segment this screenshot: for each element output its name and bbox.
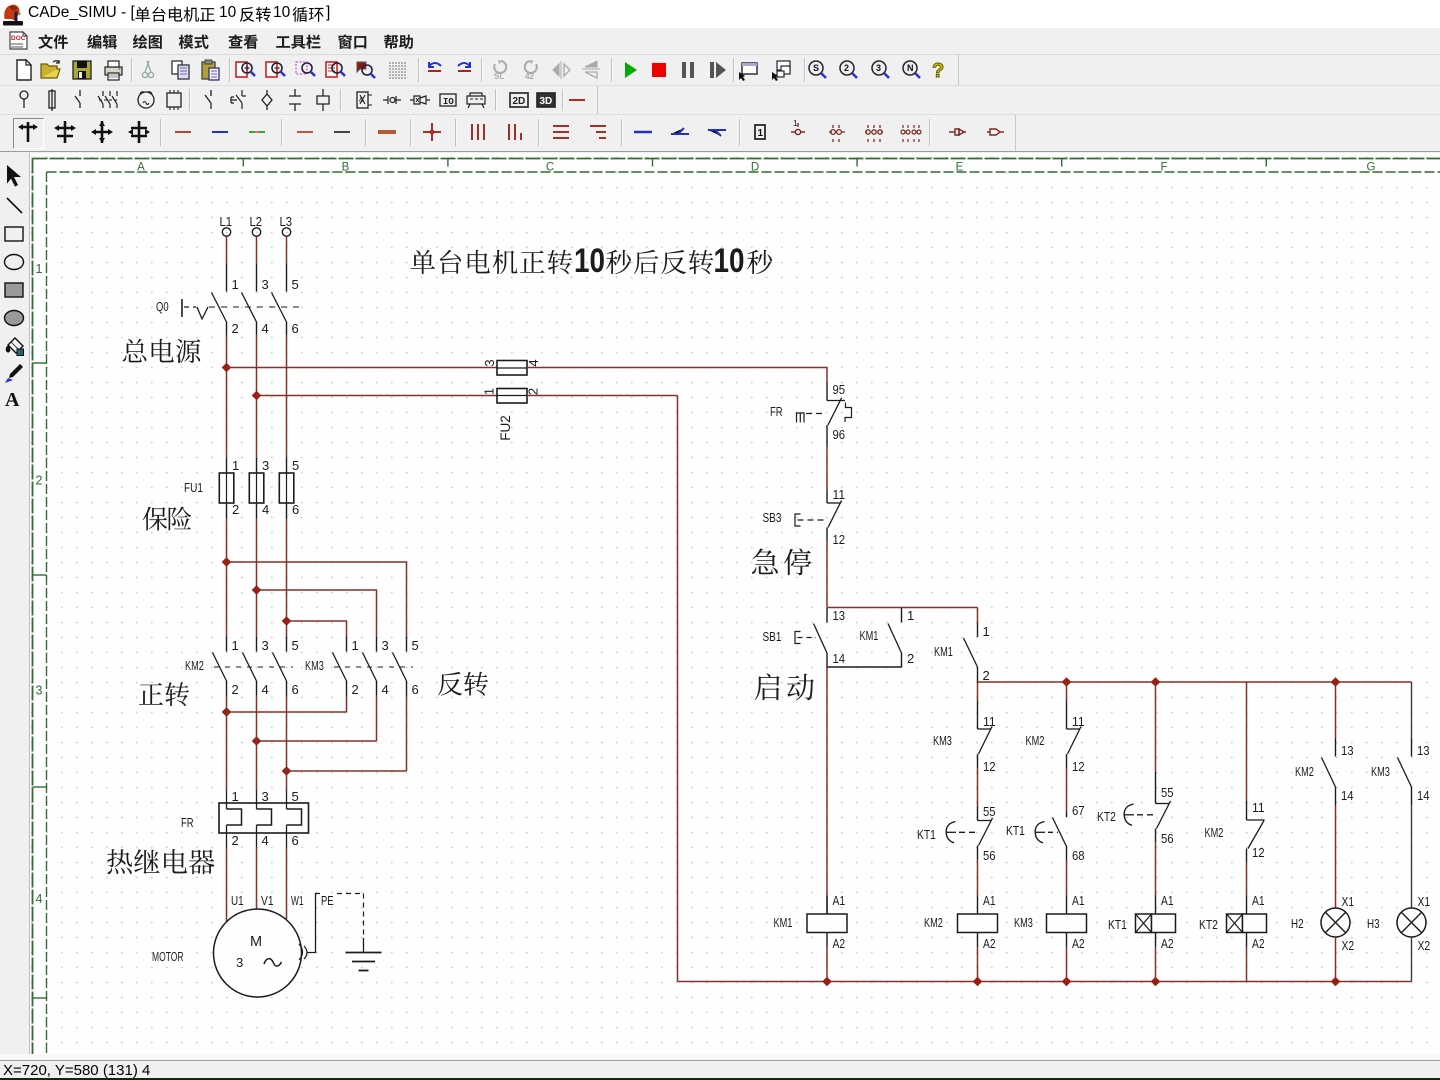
wire L2 to Q0 — [256, 237, 258, 265]
fuse FU2 lower — [497, 389, 527, 404]
svg-text:H3: H3 — [1367, 916, 1380, 931]
svg-text:KM3: KM3 — [305, 658, 324, 673]
wire H3 to rail — [1411, 937, 1413, 982]
svg-text:KT1: KT1 — [1006, 823, 1025, 838]
svg-text:2: 2 — [352, 682, 359, 697]
wire L3 Q0 to FU1 — [286, 335, 288, 458]
breaker Q0 pole 2 — [256, 264, 258, 292]
wire KM2 coil to rail — [977, 947, 979, 982]
fuse FU1 pole 1-2 — [226, 458, 228, 473]
svg-text:A2: A2 — [833, 936, 846, 951]
svg-text:12: 12 — [1252, 845, 1265, 860]
wire L2 Q0 to FU1 — [256, 335, 258, 458]
label ji-ting emergency stop — [752, 548, 812, 575]
svg-text:A2: A2 — [1252, 936, 1265, 951]
coil KT2 timer — [1246, 896, 1248, 915]
wire L1 FU1 to KM2 — [226, 518, 228, 637]
svg-text:FR: FR — [181, 815, 194, 830]
svg-text:14: 14 — [833, 651, 846, 666]
svg-text:3: 3 — [262, 638, 269, 653]
svg-text:X2: X2 — [1342, 938, 1355, 953]
svg-text:2: 2 — [983, 668, 990, 683]
wire L2 tap to FU2 — [257, 395, 498, 397]
wire L1 Q0 to FU1 — [226, 335, 228, 458]
wire PE — [307, 894, 321, 953]
node bus b3 — [1062, 677, 1072, 687]
svg-text:13: 13 — [1417, 743, 1430, 758]
svg-text:X1: X1 — [1418, 894, 1431, 909]
schematic heading text — [410, 250, 572, 274]
breaker Q0 actuator and linkage — [181, 299, 183, 317]
contactor KM2 NO aux contact 11-12 — [1246, 801, 1248, 820]
svg-text:KT2: KT2 — [1199, 917, 1218, 932]
svg-text:4: 4 — [262, 833, 269, 848]
pushbutton SB3 NC contact 11-12 — [826, 490, 828, 504]
svg-text:KM3: KM3 — [1371, 764, 1390, 779]
wire KT1 coil to rail — [1155, 947, 1157, 982]
node junction L2 to KM3 — [252, 585, 262, 595]
wire bus to KT2 contact — [1155, 682, 1157, 772]
label zheng-zhuan forward — [139, 682, 189, 706]
wire KM3i to KT1 — [977, 768, 979, 806]
svg-text:PE: PE — [321, 893, 334, 908]
svg-text:6: 6 — [292, 833, 299, 848]
node rail b4 — [1151, 977, 1161, 987]
fuse FU1 pole 3-4 — [256, 458, 258, 473]
linkage KM3 — [334, 666, 413, 668]
node rail b2 — [973, 977, 983, 987]
motor PE terminal arcs — [299, 944, 303, 960]
svg-text:95: 95 — [833, 382, 846, 397]
svg-text:5: 5 — [292, 789, 299, 804]
wire FR to motor V1 — [256, 847, 258, 909]
svg-text:5: 5 — [292, 638, 299, 653]
svg-text:68: 68 — [1072, 848, 1085, 863]
wire KT1 to KM2 coil — [977, 860, 979, 896]
svg-text:SB1: SB1 — [763, 629, 782, 644]
wire PE dashed — [337, 893, 364, 895]
wire FR to motor U1 — [226, 847, 228, 921]
contactor KM3 main contact pole 1 — [346, 637, 348, 652]
breaker Q0 pole 3 — [286, 264, 288, 292]
contactor KM1 aux NO parallel contact 1-2 — [901, 608, 903, 623]
svg-text:A1: A1 — [983, 893, 996, 908]
wire KM3l to H3 — [1411, 805, 1413, 908]
contactor KM1 aux NO contact 1-2 branch2 — [977, 623, 979, 637]
wire L2 to KM3 pole2 — [257, 590, 377, 637]
coil KT1 timer — [1155, 896, 1157, 915]
timer KT2 delayed NC contact 55-56 — [1155, 772, 1157, 804]
FR release hook — [845, 403, 852, 423]
breaker Q0 pole 1 — [226, 264, 228, 292]
wire KM2a to KT2 coil — [1246, 862, 1248, 896]
svg-text:A1: A1 — [833, 893, 846, 908]
svg-text:6: 6 — [292, 502, 299, 517]
svg-text:1: 1 — [232, 458, 239, 473]
pushbutton SB1 NO contact 13-14 — [826, 608, 828, 623]
svg-text:KM1: KM1 — [860, 628, 879, 643]
wire KM1 coil to rail — [826, 947, 828, 982]
svg-text:X2: X2 — [1418, 938, 1431, 953]
svg-text:KM2: KM2 — [1026, 733, 1045, 748]
svg-text:55: 55 — [983, 804, 996, 819]
contactor KM3 main contact pole 3 — [406, 637, 408, 652]
svg-text:5: 5 — [292, 277, 299, 292]
svg-text:11: 11 — [1072, 714, 1085, 729]
contactor KM3 NO lamp contact 13-14 — [1411, 738, 1413, 757]
wire FU2 lower to left control rail — [527, 395, 678, 397]
svg-text:14: 14 — [1417, 788, 1430, 803]
svg-text:12: 12 — [1072, 759, 1085, 774]
node L2 — [252, 228, 260, 236]
fuse FU2 upper — [497, 361, 527, 376]
node junction L2 tap — [252, 391, 262, 401]
svg-text:A2: A2 — [1072, 936, 1085, 951]
wire FR to motor W1 — [286, 847, 288, 919]
svg-text:FU1: FU1 — [184, 480, 203, 495]
node junction L1 to KM3 — [222, 557, 232, 567]
wire KT2 coil to rail — [1246, 947, 1248, 982]
svg-text:13: 13 — [833, 608, 846, 623]
thermal relay FR NC contact 95-96 — [826, 383, 828, 401]
svg-text:3: 3 — [236, 955, 243, 970]
wire L3 to Q0 — [286, 237, 288, 265]
wire KT1b to KM3 coil — [1066, 860, 1068, 896]
contactor KM2 main contact pole 3 — [286, 637, 288, 652]
label re-ji-dian-qi thermal relay — [107, 849, 214, 874]
svg-text:A1: A1 — [1072, 893, 1085, 908]
svg-text:A1: A1 — [1252, 893, 1265, 908]
coil KM1 — [826, 896, 828, 915]
svg-text:3: 3 — [482, 359, 497, 366]
svg-text:W1: W1 — [291, 893, 304, 908]
wire bus to KM2 NO — [1246, 682, 1248, 801]
svg-text:MOTOR: MOTOR — [152, 949, 184, 964]
wire FU2 upper to FR contact — [527, 368, 827, 383]
svg-text:4: 4 — [262, 502, 269, 517]
svg-text:2: 2 — [232, 502, 239, 517]
svg-text:KM2: KM2 — [1205, 825, 1224, 840]
svg-text:2: 2 — [907, 651, 914, 666]
wire left control rail — [677, 396, 679, 982]
node L3 — [282, 228, 290, 236]
wire KM3 pole2 out — [376, 696, 378, 742]
svg-text:6: 6 — [412, 682, 419, 697]
label fan-zhuan reverse — [438, 672, 488, 696]
svg-text:FR: FR — [770, 404, 783, 419]
svg-text:13: 13 — [1341, 743, 1354, 758]
svg-text:4: 4 — [382, 682, 389, 697]
svg-text:2: 2 — [232, 682, 239, 697]
svg-text:10: 10 — [714, 241, 745, 279]
svg-text:KM2: KM2 — [924, 915, 943, 930]
timer KT1 delayed NC contact 55-56 — [977, 806, 979, 821]
wire H2 to rail — [1335, 937, 1337, 982]
svg-text:2: 2 — [232, 833, 239, 848]
wire L1 tap to FU2 — [227, 367, 498, 369]
svg-text:2: 2 — [232, 321, 239, 336]
wire SB3 to SB1 — [826, 542, 828, 608]
wire SB1 to KM1 coil — [826, 667, 828, 914]
node bus b4 — [1151, 677, 1161, 687]
svg-text:2: 2 — [526, 388, 541, 395]
svg-text:4: 4 — [526, 359, 541, 366]
wire bus to KM2 lamp contact — [1335, 682, 1337, 738]
svg-text:11: 11 — [833, 487, 846, 502]
svg-text:56: 56 — [1161, 831, 1174, 846]
svg-text:12: 12 — [983, 759, 996, 774]
wire KT2a to KT1 coil — [1155, 842, 1157, 896]
label bao-xian fuse — [143, 507, 192, 531]
wire bus corner to KM3 lamp contact — [1411, 682, 1413, 738]
svg-text:1: 1 — [232, 789, 239, 804]
wire bottom rail — [678, 981, 1412, 983]
svg-text:FU2: FU2 — [498, 415, 513, 441]
svg-text:10: 10 — [574, 241, 605, 279]
svg-text:1: 1 — [482, 388, 497, 395]
svg-text:Q0: Q0 — [156, 299, 169, 314]
coil KM2 — [977, 896, 979, 915]
contactor KM3 main contact pole 2 — [376, 637, 378, 652]
svg-text:X1: X1 — [1342, 894, 1355, 909]
svg-text:KM3: KM3 — [933, 733, 952, 748]
contactor KM2 NC interlock contact 11-12 — [1066, 701, 1068, 730]
svg-text:L3: L3 — [280, 214, 293, 229]
wire bus to KM3 NC — [977, 682, 979, 701]
wire V to FR — [256, 696, 258, 791]
wire L3 FU1 to KM2 — [286, 518, 288, 637]
svg-text:V1: V1 — [261, 893, 274, 908]
svg-text:96: 96 — [833, 427, 846, 442]
wire L1 to KM3 pole3 — [227, 562, 407, 637]
wire KM3 coil to rail — [1066, 947, 1068, 982]
svg-text:KM2: KM2 — [185, 658, 204, 673]
SB1 button actuator — [795, 632, 801, 644]
svg-text:5: 5 — [292, 458, 299, 473]
coil KM3 — [1066, 896, 1068, 915]
wire KM2l to H2 — [1335, 805, 1337, 908]
node junction L1 tap — [222, 363, 232, 373]
svg-text:1: 1 — [352, 638, 359, 653]
thermal relay FR heater block — [219, 803, 309, 833]
svg-text:1: 1 — [983, 624, 990, 639]
svg-text:L1: L1 — [220, 214, 233, 229]
svg-text:55: 55 — [1161, 785, 1174, 800]
lamp H2 — [1321, 908, 1350, 937]
contactor KM2 main contact pole 2 — [256, 637, 258, 652]
svg-text:6: 6 — [292, 682, 299, 697]
svg-text:12: 12 — [833, 532, 846, 547]
wire control bus — [978, 681, 1412, 683]
svg-text:6: 6 — [292, 321, 299, 336]
svg-text:KT1: KT1 — [917, 827, 936, 842]
wire KM3 pole3 out — [406, 696, 408, 772]
svg-text:H2: H2 — [1291, 916, 1304, 931]
node L1 — [222, 228, 230, 236]
timer KT1 delayed NO contact 67-68 — [1066, 812, 1068, 817]
label qi-dong start — [755, 673, 814, 700]
wire KM3 pole1 out — [346, 696, 348, 713]
wire W to FR — [286, 696, 288, 791]
svg-text:M: M — [250, 934, 262, 950]
node junction KM2-KM3 phase U — [222, 707, 232, 717]
node junction KM2-KM3 phase V — [252, 736, 262, 746]
svg-text:1: 1 — [232, 638, 239, 653]
wire L2 FU1 to KM2 — [256, 518, 258, 637]
svg-text:KT2: KT2 — [1097, 809, 1116, 824]
contactor KM2 NO lamp contact 13-14 — [1335, 738, 1337, 757]
wire U to FR — [226, 696, 228, 791]
wire control node 13 — [827, 607, 978, 609]
node bus b6 — [1331, 677, 1341, 687]
svg-text:L2: L2 — [250, 214, 263, 229]
svg-text:11: 11 — [983, 714, 996, 729]
wire SB1 bottom link — [827, 666, 902, 668]
contactor KM2 main contact pole 1 — [226, 637, 228, 652]
node junction L3 to KM3 — [282, 616, 292, 626]
svg-text:KM2: KM2 — [1295, 764, 1314, 779]
node rail b3 — [1062, 977, 1072, 987]
svg-text:1: 1 — [907, 608, 914, 623]
svg-text:11: 11 — [1252, 800, 1265, 815]
label zong-dian-yuan main power — [123, 339, 201, 363]
svg-text:A1: A1 — [1161, 893, 1174, 908]
svg-text:4: 4 — [262, 321, 269, 336]
svg-text:A2: A2 — [1161, 936, 1174, 951]
svg-text:KT1: KT1 — [1108, 917, 1127, 932]
linkage KM2 — [214, 666, 293, 668]
fuse FU1 pole 5-6 — [286, 458, 288, 473]
contactor KM3 NC interlock contact 11-12 — [977, 701, 979, 730]
svg-text:KM1: KM1 — [774, 915, 793, 930]
lamp H3 — [1397, 908, 1426, 937]
svg-text:14: 14 — [1341, 788, 1354, 803]
svg-text:A2: A2 — [983, 936, 996, 951]
node junction KM2-KM3 phase W — [282, 766, 292, 776]
SB3 button actuator — [795, 514, 801, 526]
wire bus to KM2 NC — [1066, 682, 1068, 701]
svg-text:KM1: KM1 — [934, 644, 953, 659]
svg-text:3: 3 — [262, 458, 269, 473]
wire L1 to Q0 — [226, 237, 228, 265]
svg-text:3: 3 — [262, 789, 269, 804]
wire to KM1 aux b2 — [977, 608, 979, 624]
svg-text:56: 56 — [983, 848, 996, 863]
svg-text:3: 3 — [382, 638, 389, 653]
node rail b1 — [822, 977, 832, 987]
ground PE — [346, 952, 382, 954]
svg-text:KM3: KM3 — [1014, 915, 1033, 930]
wire FR to SB3 — [826, 447, 828, 490]
svg-text:3: 3 — [262, 277, 269, 292]
wire L3 to KM3 pole1 — [287, 621, 347, 637]
svg-text:4: 4 — [262, 682, 269, 697]
wire KM2i to KT1b — [1066, 768, 1068, 812]
svg-text:5: 5 — [412, 638, 419, 653]
svg-text:1: 1 — [232, 277, 239, 292]
svg-text:U1: U1 — [231, 893, 244, 908]
FR trip symbol — [797, 413, 805, 423]
svg-text:67: 67 — [1072, 803, 1085, 818]
motor M 3~ — [214, 909, 302, 997]
node rail b6 — [1331, 977, 1341, 987]
svg-text:SB3: SB3 — [763, 510, 782, 525]
